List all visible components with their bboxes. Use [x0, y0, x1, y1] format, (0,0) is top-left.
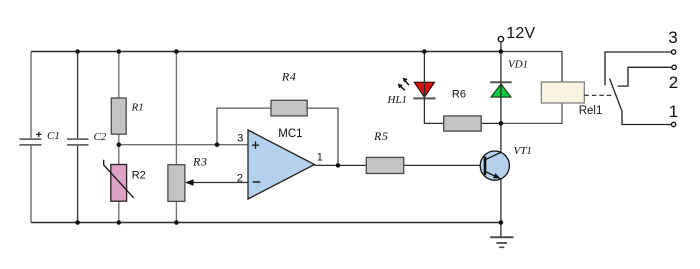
wire to op-amp pin 3: [119, 144, 248, 146]
svg-text:R5: R5: [373, 129, 389, 143]
svg-text:1: 1: [669, 102, 678, 121]
wire bottom rail: [31, 222, 501, 224]
capacitor C1: [20, 130, 60, 145]
svg-text:2: 2: [237, 173, 243, 185]
junction top rail R3: [174, 49, 179, 54]
junction collector node: [499, 121, 504, 126]
op-amp MC1: [237, 128, 323, 199]
wire R3 wiper to op-amp pin 2: [185, 179, 248, 185]
capacitor C2: [67, 131, 107, 145]
thermistor R2: [104, 160, 146, 202]
svg-text:12V: 12V: [506, 25, 535, 42]
svg-text:R6: R6: [452, 89, 466, 101]
wire VD1 branch: [500, 52, 502, 124]
svg-text:Rel1: Rel1: [579, 105, 603, 117]
diode VD1: [490, 59, 528, 98]
junction bottom rail R2: [117, 220, 122, 225]
svg-text:3: 3: [668, 28, 677, 47]
wire R3 branch: [175, 52, 177, 223]
junction R4 to pin 3: [215, 142, 220, 147]
transistor VT1: [480, 145, 532, 180]
junction top rail C2: [75, 49, 80, 54]
wire R5 to VT1 base: [404, 164, 485, 166]
svg-text:C2: C2: [94, 131, 107, 143]
junction top rail HL1: [422, 49, 427, 54]
svg-text:C1: C1: [47, 130, 60, 142]
junction bottom rail C2: [75, 220, 80, 225]
wire VT1 emitter to ground rail: [500, 179, 502, 223]
junction bottom rail ground: [499, 220, 504, 225]
svg-text:1: 1: [317, 152, 323, 164]
wire VT1 collector: [500, 123, 502, 152]
resistor R6: [444, 89, 482, 131]
terminal 3: [668, 28, 677, 54]
terminal 1: [669, 102, 678, 127]
junction R1 R2 divider: [117, 142, 122, 147]
wire R6 to node: [481, 122, 501, 124]
resistor R4: [271, 70, 307, 116]
ground: [490, 223, 513, 248]
svg-text:VD1: VD1: [508, 59, 528, 71]
resistor R5: [366, 129, 403, 174]
svg-text:R4: R4: [281, 70, 297, 84]
wire C1 branch: [30, 52, 32, 223]
wire rail to relay coil: [501, 52, 562, 83]
svg-text:VT1: VT1: [514, 145, 532, 157]
wire relay coil return: [501, 103, 562, 123]
switch arm: [610, 79, 622, 111]
LED HL1: [387, 78, 436, 106]
wire C2 branch: [77, 52, 79, 223]
terminal 2: [669, 65, 678, 92]
svg-text:R3: R3: [192, 155, 208, 169]
wire switch terminal 2: [618, 67, 672, 86]
svg-text:2: 2: [669, 73, 678, 92]
wire op-amp output: [315, 164, 367, 166]
svg-text:MC1: MC1: [278, 128, 302, 140]
junction op-amp output: [336, 163, 341, 168]
wire switch terminal 1: [622, 111, 671, 125]
12V supply node: [498, 25, 535, 51]
resistor R1: [111, 98, 143, 134]
svg-text:3: 3: [237, 132, 243, 144]
wire switch terminal 3: [605, 52, 671, 85]
wire HL1 branch: [424, 52, 443, 124]
junction bottom rail R3: [174, 220, 179, 225]
svg-text:R2: R2: [132, 169, 146, 181]
potentiometer R3: [168, 155, 208, 202]
wire top rail +12V: [31, 51, 501, 53]
junction top rail 12V: [499, 49, 504, 54]
relay coil Rel1: [541, 82, 602, 117]
wire R1 R2 branch: [118, 52, 120, 223]
wire relay actuation dashed link: [584, 94, 614, 96]
svg-text:R1: R1: [131, 101, 144, 113]
wire R4 feedback loop: [217, 108, 338, 165]
svg-text:HL1: HL1: [387, 94, 408, 106]
junction top rail R1: [117, 49, 122, 54]
